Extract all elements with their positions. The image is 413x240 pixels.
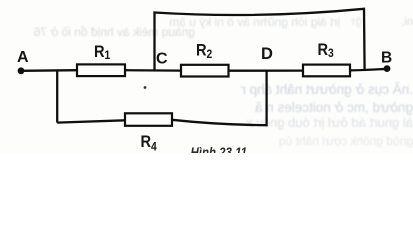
svg-text:C: C xyxy=(156,51,168,68)
bleed-through ghost smudge left of corner xyxy=(346,16,362,28)
svg-text:D: D xyxy=(261,45,273,63)
node A terminal dot xyxy=(18,67,25,74)
svg-text:B: B xyxy=(381,50,392,67)
bleed-through ghost text top corner xyxy=(394,16,413,28)
resistor R2 xyxy=(181,65,229,77)
bleed-through ghost text top line 1 xyxy=(168,15,340,29)
bleed-through ghost text bottom right xyxy=(240,115,413,130)
resistor R3 xyxy=(303,65,350,77)
wire: junction after A down to bottom branch xyxy=(56,70,58,122)
bleed-through ghost text right line 1 xyxy=(241,82,413,97)
wire: bottom branch left segment to R4 xyxy=(57,120,125,122)
stray ink speck xyxy=(144,86,147,89)
resistor R1 xyxy=(77,64,125,76)
resistor R4 xyxy=(125,113,172,126)
wire: top loop from C over to node right of R3 xyxy=(155,9,365,71)
svg-text:A: A xyxy=(17,49,29,66)
svg-text:Hình 23.11: Hình 23.11 xyxy=(191,145,248,153)
bleed-through ghost text bottom right 2 xyxy=(270,134,413,148)
svg-text:R1: R1 xyxy=(94,43,110,62)
wire: main horizontal A to B xyxy=(21,69,387,71)
wire: bottom branch right segment from R4 up to D xyxy=(172,70,267,125)
svg-text:R3: R3 xyxy=(318,41,334,60)
node B terminal dot xyxy=(384,65,391,72)
bleed-through ghost text right line 2 xyxy=(250,100,413,115)
svg-text:R4: R4 xyxy=(141,133,158,153)
bleed-through ghost text top line 2 xyxy=(34,25,195,39)
svg-text:R2: R2 xyxy=(196,42,212,61)
